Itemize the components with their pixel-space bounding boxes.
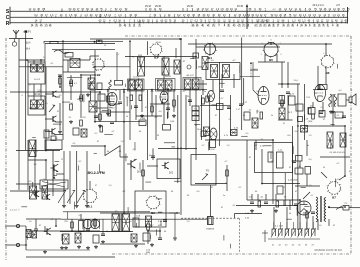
capacitor if4 xyxy=(188,100,192,102)
osc can 4 xyxy=(202,57,208,70)
junction xyxy=(195,56,197,58)
svg-text:25,30: 25,30 xyxy=(155,5,162,8)
resistor rc1 xyxy=(108,110,111,116)
capacitor if2 xyxy=(134,106,138,108)
wire top bus A xyxy=(44,40,123,42)
junction xyxy=(55,225,57,227)
ground bus bottom-left xyxy=(26,256,115,258)
wire fm h8 xyxy=(81,74,95,76)
svg-text:4ΩN: 4ΩN xyxy=(158,225,163,227)
wire ps v1 xyxy=(306,140,308,156)
svg-text:40 42: 40 42 xyxy=(34,94,40,96)
IF transformer can 5b xyxy=(193,79,200,89)
wire b4 area v3 xyxy=(221,74,223,88)
stacked box 2 xyxy=(192,111,199,116)
hatched box psB xyxy=(301,126,308,133)
capacitor b4a xyxy=(220,90,224,92)
wire vert mix xyxy=(94,50,96,122)
junction xyxy=(180,38,182,40)
wire af h2 xyxy=(16,183,40,185)
wire sw drop4 xyxy=(306,210,308,229)
wire v if h xyxy=(167,89,169,118)
ground bl5 xyxy=(64,246,68,250)
cap c10 xyxy=(239,104,243,106)
wire left AM line xyxy=(19,66,63,68)
svg-text:1,0 1,5: 1,0 1,5 xyxy=(133,77,140,79)
wire switch bus xyxy=(247,199,300,201)
capacitor amp2 xyxy=(86,229,90,231)
junction xyxy=(45,159,47,161)
resistor on bus2 xyxy=(50,42,58,45)
wire right mid xyxy=(320,156,350,158)
resistor R3 xyxy=(70,80,73,86)
transistor T1 xyxy=(50,91,57,97)
wire h b2 xyxy=(90,55,99,57)
wire v x90 xyxy=(89,56,91,60)
wire amp h3 xyxy=(25,226,27,250)
wire amp v6 xyxy=(80,214,82,221)
wire mixer line xyxy=(95,66,130,68)
antenna xyxy=(13,30,19,39)
svg-text:6: 6 xyxy=(270,40,271,42)
dial scale 2 tick numbers xyxy=(34,14,345,18)
wire sw v4 xyxy=(275,194,277,200)
ground G1 xyxy=(58,130,62,134)
wire bottom mid xyxy=(100,212,180,214)
box psC xyxy=(319,111,325,118)
wire left lower xyxy=(10,190,64,192)
wire fm v4 xyxy=(70,86,72,100)
junction xyxy=(202,89,204,91)
ground tun3 xyxy=(85,204,89,208)
wire fm v1 xyxy=(59,75,61,87)
tube B9 (top view) xyxy=(146,195,161,215)
dial marker tick xyxy=(99,14,101,18)
wire amp v1 xyxy=(35,219,37,229)
tube B3 (top view) xyxy=(150,43,163,59)
svg-text:4,1 4Ω 4,14 0,5: 4,1 4Ω 4,14 0,5 xyxy=(329,152,345,154)
capacitor if1 xyxy=(118,102,122,104)
cap sw1 xyxy=(250,202,254,204)
resistor out1 xyxy=(312,114,315,119)
mixer box small xyxy=(65,53,73,58)
wire out v1 xyxy=(312,102,314,108)
junction xyxy=(25,244,27,246)
box 7.5M xyxy=(163,125,171,131)
ps box A xyxy=(244,112,250,120)
dial scale lower tick numbers xyxy=(31,24,340,28)
ground psC xyxy=(329,110,333,114)
wire fm v8 xyxy=(90,75,92,80)
wire af h1 xyxy=(28,159,46,161)
wire out stage top xyxy=(319,125,345,127)
hatched cap in1 xyxy=(26,230,31,238)
IF t3 box xyxy=(128,79,145,91)
wire h if b xyxy=(136,115,162,117)
wire vert osc xyxy=(62,41,64,140)
antenna junction blob xyxy=(25,30,27,32)
junction xyxy=(180,148,182,150)
ground if1 xyxy=(106,112,110,116)
wire v if d xyxy=(119,90,121,100)
wire vert ps1 xyxy=(292,126,294,205)
capacitor sw3 xyxy=(294,204,298,206)
ground if4 xyxy=(98,124,102,128)
stacked box 3 xyxy=(192,116,199,121)
ground sw2 xyxy=(274,209,278,213)
wire left fm c xyxy=(40,60,42,64)
wire af v5 xyxy=(142,160,144,190)
wire right col v1 xyxy=(281,62,283,88)
dial scale right bracket xyxy=(347,7,349,24)
wire sw drop3 xyxy=(299,200,301,229)
resistor 1.1k xyxy=(277,150,284,169)
resistor if1 xyxy=(99,114,102,120)
wire right col v2 xyxy=(287,62,289,88)
osc coil can 1 xyxy=(138,57,145,76)
dial scale 3 tick numbers xyxy=(35,19,348,23)
small box vb2 xyxy=(97,83,102,90)
wire af line xyxy=(158,147,197,149)
junction xyxy=(59,86,61,88)
junction xyxy=(80,74,82,76)
transistor T4 xyxy=(50,164,58,172)
IF transformer can 3b xyxy=(136,80,143,90)
resistor if2 xyxy=(107,96,110,102)
tuning cap arrow 3 xyxy=(77,190,85,203)
wire b4 bus drop xyxy=(209,44,211,55)
wire amp top xyxy=(61,218,207,220)
speaker xyxy=(349,94,356,105)
wire af v1 xyxy=(45,160,47,180)
junction xyxy=(281,83,283,85)
capacitor sw5 xyxy=(311,212,315,214)
junction xyxy=(94,121,96,123)
hatched bl3 xyxy=(75,233,81,243)
box right mid xyxy=(296,156,303,162)
wire mid v1 xyxy=(226,165,228,191)
can bl5 xyxy=(81,129,87,137)
tube B5 (top view) xyxy=(263,42,280,63)
IF transformer can 4a xyxy=(158,80,165,90)
output transformer primary xyxy=(329,94,337,107)
svg-text:7: 7 xyxy=(279,43,280,45)
wire out h1 xyxy=(304,125,319,127)
wire top v x140 xyxy=(139,57,141,67)
capacitor amp3 xyxy=(163,220,167,222)
wire HT bus xyxy=(188,43,332,45)
tuning cap arrow 2 xyxy=(67,190,75,203)
box 414 QRH xyxy=(308,106,315,115)
svg-text:B7: B7 xyxy=(332,195,336,199)
wire vert ps2 xyxy=(297,84,299,230)
svg-text:4,1 1,42: 4,1 1,42 xyxy=(275,226,284,228)
wire af v6 xyxy=(152,148,154,160)
wire top v x158 xyxy=(157,55,159,59)
wire h 60 xyxy=(63,59,90,61)
small box rb xyxy=(73,128,79,135)
wire ps v2 xyxy=(299,161,301,168)
wire vert if4 xyxy=(155,95,157,140)
ground amp3 xyxy=(86,246,90,250)
wire right link xyxy=(235,214,263,219)
wire vert r3 xyxy=(218,62,220,140)
wire h if c xyxy=(150,103,170,105)
wire osc line xyxy=(52,49,115,51)
wire fm h7 xyxy=(56,134,64,136)
dial scale line 1 xyxy=(10,10,348,12)
wire vert gang2 xyxy=(52,150,54,196)
wire sw v3 xyxy=(265,194,267,200)
resistor sw4 xyxy=(306,212,309,218)
hatched cap in2 xyxy=(32,231,37,238)
svg-text:4,14 (106): 4,14 (106) xyxy=(288,180,298,182)
box bl1 xyxy=(133,218,139,227)
wire out h2 xyxy=(313,89,323,91)
wire amp h5 xyxy=(100,243,145,245)
IF can B4a xyxy=(211,65,218,78)
svg-text:B6: B6 xyxy=(326,71,330,75)
wire amp h4 xyxy=(60,231,133,233)
capacitor C5 xyxy=(58,75,62,77)
svg-text:1,0Δ: 1,0Δ xyxy=(136,215,141,218)
resistor amp1 xyxy=(71,222,74,228)
svg-text:4: 4 xyxy=(261,43,262,45)
wire vert v2 xyxy=(163,56,165,91)
wire sw v5 xyxy=(283,200,285,206)
wire amp h2 xyxy=(26,230,100,232)
wire fm h6 xyxy=(45,131,49,133)
wire fm v5 xyxy=(80,75,82,95)
svg-text:4ΩN: 4ΩN xyxy=(146,252,151,254)
wire vert ps3 xyxy=(303,84,305,140)
wire amp v9 xyxy=(147,231,149,244)
wire vert band xyxy=(27,140,29,190)
resistor 1.1k b xyxy=(268,152,273,162)
wire amp v2 xyxy=(44,226,46,231)
IF transformer can 3a xyxy=(129,80,135,90)
junction xyxy=(104,145,106,147)
wire af bus2 xyxy=(195,183,227,185)
svg-text:R: R xyxy=(6,21,10,27)
svg-text:1,0 4,2: 1,0 4,2 xyxy=(34,79,41,81)
junction xyxy=(26,59,28,61)
fuse box P1 xyxy=(343,203,349,210)
switch stub xyxy=(262,230,268,242)
junction xyxy=(328,206,330,208)
wire amp v5 xyxy=(71,219,73,231)
wire v if f xyxy=(141,89,143,112)
tuning gang can 2 xyxy=(42,186,48,199)
junction xyxy=(292,160,294,162)
junction xyxy=(261,183,263,185)
junction xyxy=(123,89,125,91)
resistor fm2 xyxy=(70,104,73,110)
wire b5 leads a xyxy=(264,54,266,62)
svg-text:4,1Ω: 4,1Ω xyxy=(158,221,163,223)
junction xyxy=(99,91,101,93)
wire b4 area v1 xyxy=(202,80,204,95)
chassis border top (dash-dot) xyxy=(125,35,351,37)
wire amp h6 xyxy=(148,230,160,232)
pot right xyxy=(305,167,311,175)
IF transformer can 5a xyxy=(185,79,192,89)
wire h if e xyxy=(95,107,108,109)
ps wire v xyxy=(284,173,286,206)
box 4.1k xyxy=(295,166,303,174)
wire amp h1 xyxy=(26,218,61,220)
svg-text:1,1k: 1,1k xyxy=(278,150,282,152)
wire left fm e xyxy=(33,84,35,100)
wire vert r1 xyxy=(200,95,202,140)
IF can 5 xyxy=(204,127,210,136)
wire right col v4 xyxy=(287,95,289,120)
box 1.04 xyxy=(143,233,151,254)
wire vert if3 xyxy=(147,90,149,160)
shield box dashed right xyxy=(238,218,240,253)
wire fm v6 xyxy=(80,101,82,118)
wire b6 link xyxy=(325,44,327,56)
oval can hatched 2 xyxy=(210,128,217,140)
box 1.5M xyxy=(139,120,146,126)
wire af h3 xyxy=(56,173,64,175)
b6 area box xyxy=(319,85,327,90)
wire af h7 xyxy=(147,165,158,167)
wire b4 area h2 xyxy=(250,69,258,71)
FM tuner box edge xyxy=(44,44,46,67)
resistor rc2 xyxy=(100,126,103,132)
wire sw drop1 xyxy=(273,207,275,229)
small box vb3 xyxy=(115,81,123,86)
chassis border right (dash-dot) xyxy=(350,36,352,253)
ground bl3 xyxy=(150,243,154,247)
tube B6 (top view) xyxy=(321,55,335,75)
band switch bus xyxy=(268,238,320,240)
wire mid v2 xyxy=(255,140,257,150)
junction xyxy=(344,125,346,127)
wire mains out xyxy=(349,207,360,209)
wire out v2 xyxy=(322,102,324,112)
svg-text:GRUNDIG 4X4 NF 4Ω 404: GRUNDIG 4X4 NF 4Ω 404 xyxy=(314,250,342,252)
junction xyxy=(123,91,125,93)
junction xyxy=(151,89,153,91)
svg-text:20 2,2 2,4: 20 2,2 2,4 xyxy=(312,4,324,7)
dial scale 1 tick numbers xyxy=(29,8,351,12)
hatched bl1 xyxy=(146,216,152,227)
wire b7 leads xyxy=(321,172,327,178)
tube V1 triode xyxy=(107,92,117,105)
wire mains h xyxy=(303,192,310,199)
wire v if j xyxy=(189,90,191,106)
svg-text:3KI-2-3·FM: 3KI-2-3·FM xyxy=(87,171,105,175)
ground out xyxy=(331,110,335,114)
wire vert out1 xyxy=(317,66,319,89)
box 4.04 xyxy=(210,140,216,148)
ground G2 xyxy=(86,93,90,97)
transistor T9 xyxy=(44,228,51,235)
mains transformer core xyxy=(320,196,321,222)
wire vert antenna down xyxy=(25,33,27,150)
IF can pair top b xyxy=(38,64,44,72)
coupling coil L1 xyxy=(12,39,16,47)
ground tun2 xyxy=(75,204,79,208)
wire h if d xyxy=(108,103,120,105)
capacitor b5a xyxy=(286,92,290,94)
capacitor amp1 xyxy=(34,229,38,231)
dial scale line 3 xyxy=(10,22,348,24)
wire v if b xyxy=(107,90,109,110)
wire anode row xyxy=(95,89,207,91)
junction xyxy=(299,199,301,201)
wire mains in2 xyxy=(317,219,319,230)
wire v1 anode xyxy=(115,90,117,91)
svg-text:B3: B3 xyxy=(154,55,158,59)
wire b7 lead2 xyxy=(339,176,345,180)
svg-text:QRH: QRH xyxy=(308,121,313,123)
wire input a xyxy=(5,225,20,227)
wire sw v6 xyxy=(289,200,291,210)
junction xyxy=(107,89,109,91)
wire top link xyxy=(43,41,45,43)
transistor T6 xyxy=(44,194,50,200)
hatched bl2 xyxy=(63,234,70,244)
resistor b4a xyxy=(202,98,205,104)
wire ps h1 xyxy=(295,185,320,187)
B9 screen box xyxy=(135,191,166,227)
af box A xyxy=(157,159,180,179)
ground bl1 xyxy=(101,240,105,244)
resistor box ps1 xyxy=(279,96,285,104)
svg-text:45 45: 45 45 xyxy=(237,5,244,8)
small box cluster a xyxy=(44,130,49,138)
resistor box ps2 xyxy=(289,96,296,105)
wire left fm d xyxy=(27,84,29,96)
wire fm h1 xyxy=(19,59,45,61)
junction xyxy=(135,88,137,90)
svg-text:M.A: M.A xyxy=(26,48,31,51)
wire sw drop5 xyxy=(312,216,314,229)
wire speaker line xyxy=(328,207,343,209)
wire af box link xyxy=(164,142,175,144)
wire vert af xyxy=(261,149,263,184)
wire fm h2 xyxy=(45,93,50,95)
wire vert if1 xyxy=(123,90,125,213)
driver transformer winding 2 xyxy=(123,214,130,231)
pot arrow 1 xyxy=(49,105,55,112)
wire fm h5 xyxy=(57,121,63,123)
component value labels xyxy=(21,45,353,233)
wire vert det xyxy=(177,95,179,183)
resistor if4 xyxy=(173,100,176,106)
af box B xyxy=(191,155,216,186)
cap bl1 xyxy=(101,234,105,236)
band switch numbers xyxy=(272,245,315,247)
svg-text:2,5: 2,5 xyxy=(336,4,340,7)
transistor T7 af xyxy=(127,160,135,168)
wire vert b6 xyxy=(325,66,327,84)
wire fm h4 xyxy=(45,118,50,120)
junction xyxy=(344,206,346,208)
mains switch xyxy=(336,206,342,210)
wire vert af2 xyxy=(272,140,274,204)
ground bl4 xyxy=(173,237,177,241)
wire left fm b xyxy=(33,60,35,64)
junction xyxy=(123,121,125,123)
svg-text:CHASSIS: CHASSIS xyxy=(206,227,215,230)
wire vert r4 xyxy=(230,95,232,135)
FM box 2 xyxy=(28,96,45,115)
wire right col v3 xyxy=(281,95,283,108)
